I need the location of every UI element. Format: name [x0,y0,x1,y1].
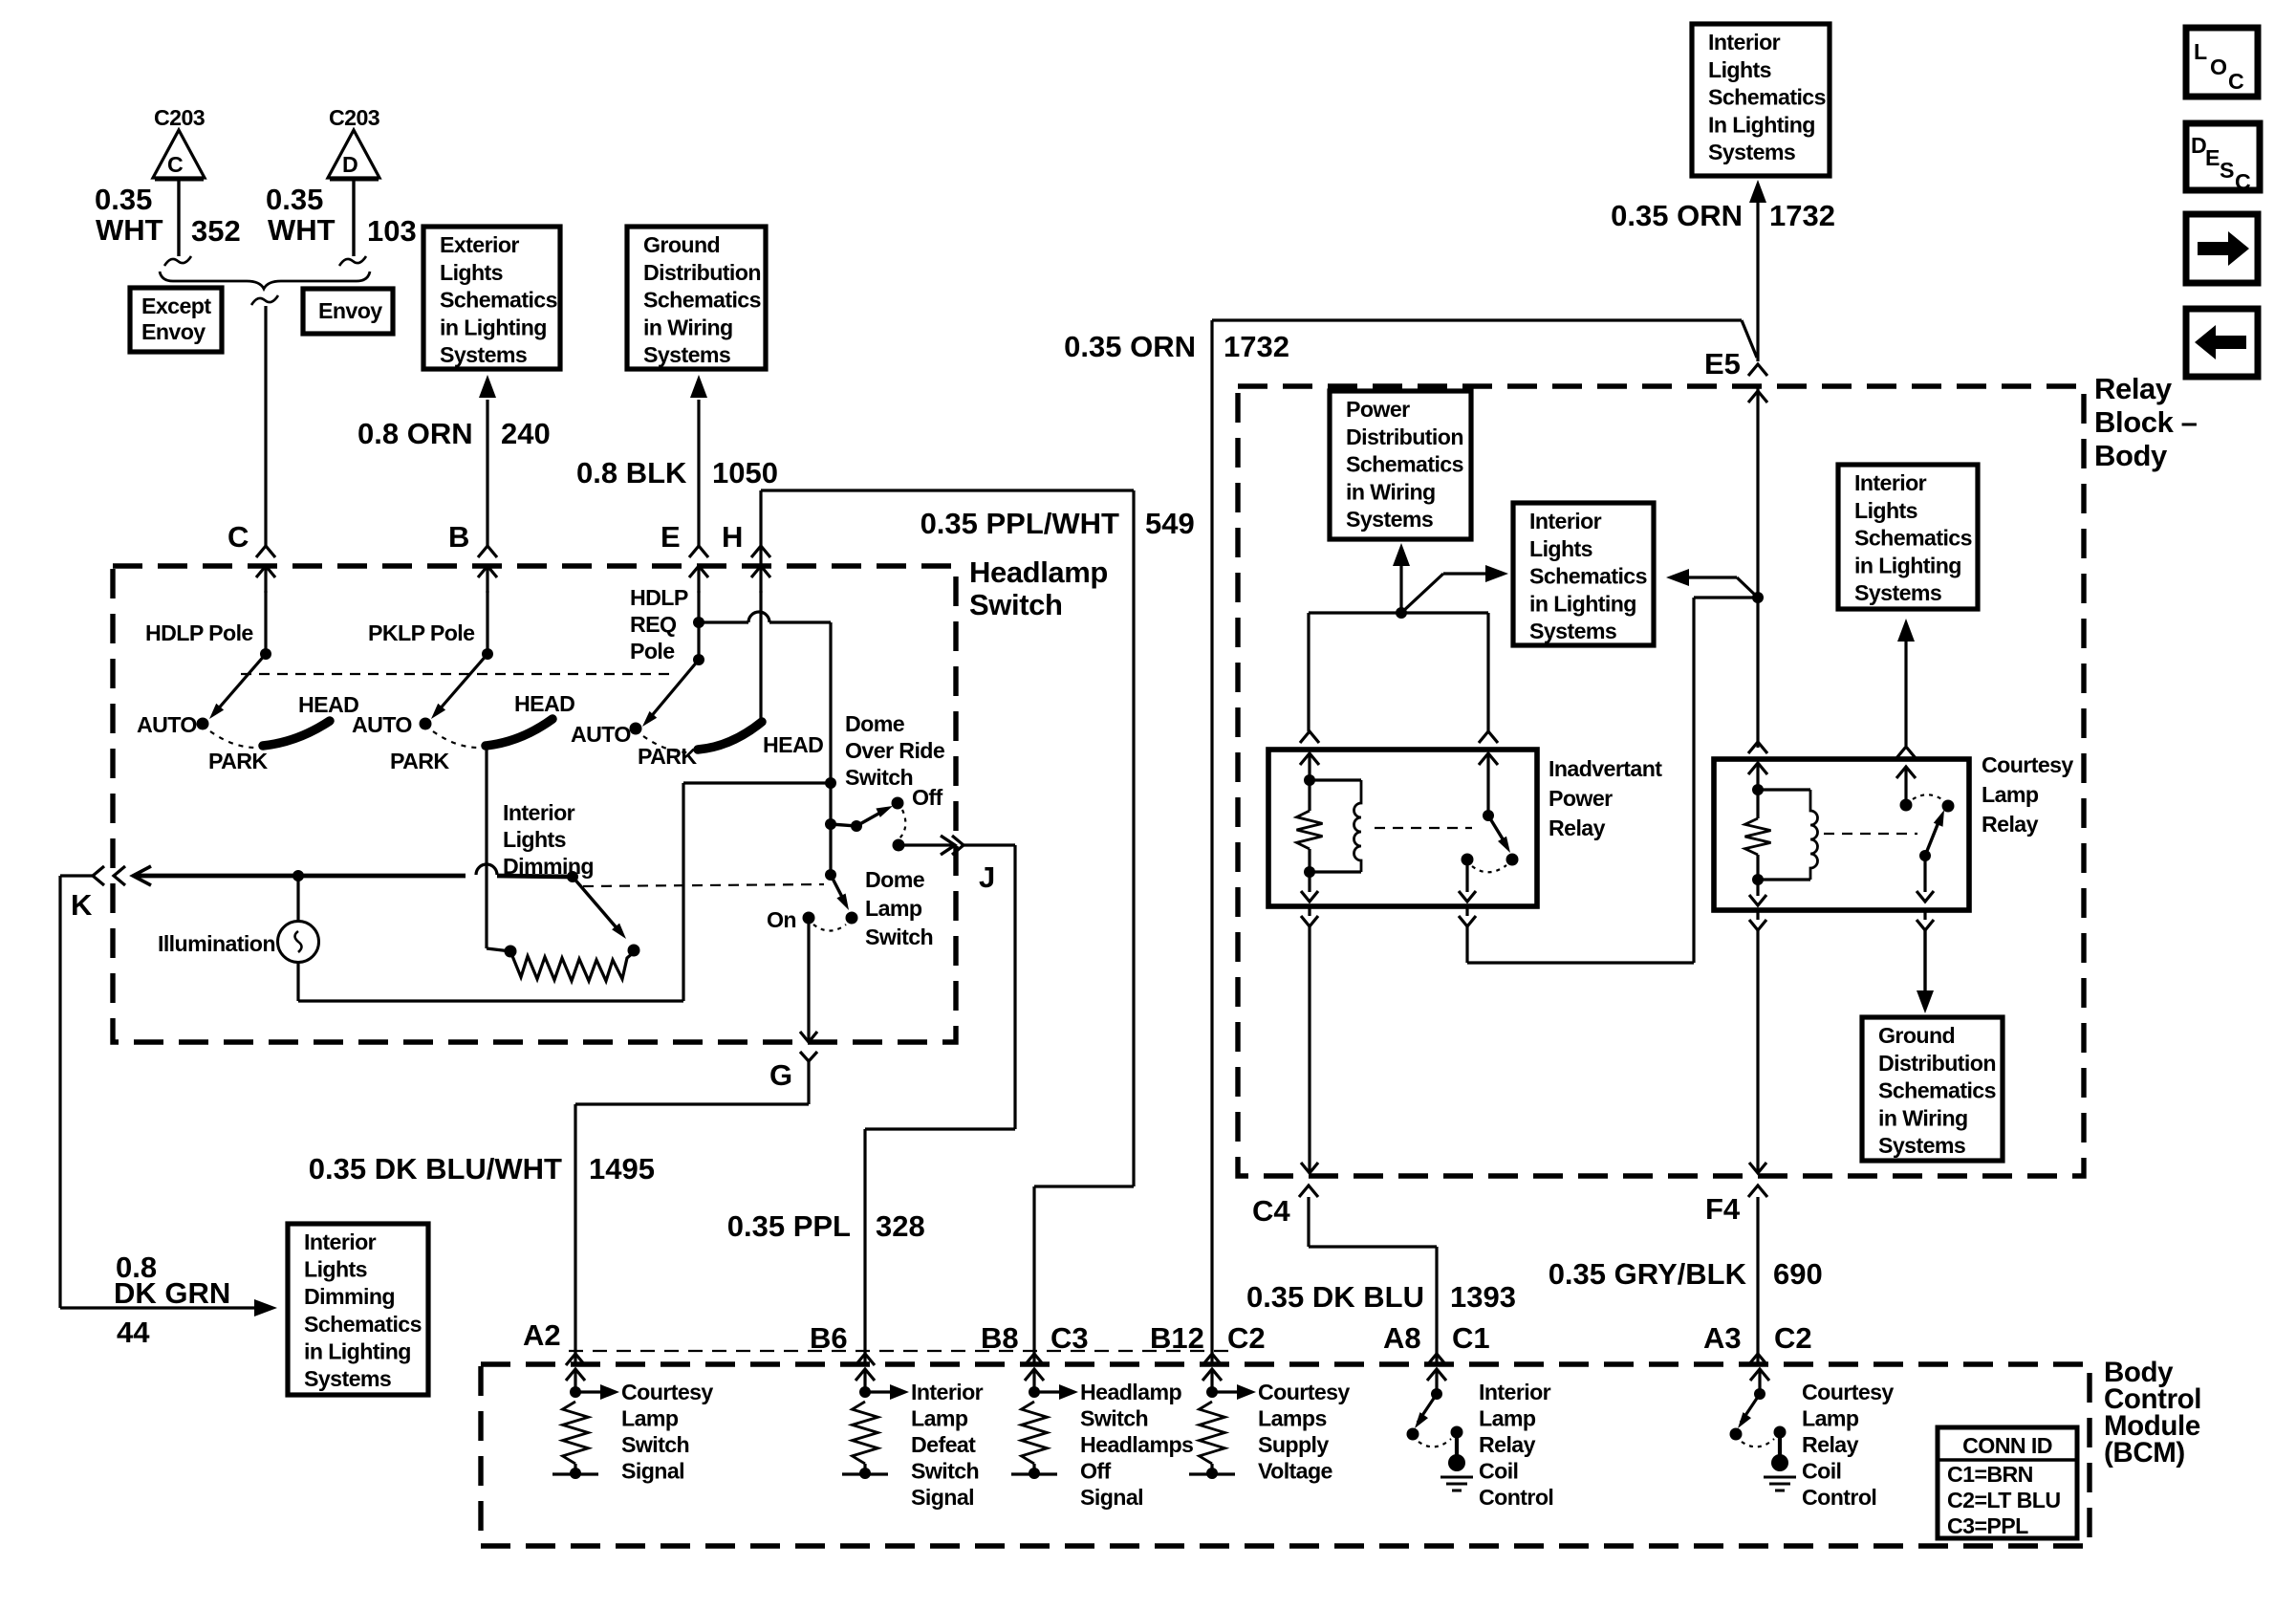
interior lamp relay coil control label [1479,1380,1553,1510]
terminal C4 of relay block [1252,1186,1318,1228]
connector C203 triangle D [328,105,380,179]
svg-text:Over Ride: Over Ride [845,738,945,763]
svg-text:Lights: Lights [1529,536,1592,561]
svg-text:Relay: Relay [2094,372,2173,405]
wire 1732 from relay block E5 to interior lights box [1212,180,1766,1364]
courtesy lamp switch signal resistor at A2 [552,1369,619,1479]
svg-text:HEAD: HEAD [298,692,358,717]
HDLP REQ pole HEAD contact arc [698,722,823,757]
svg-text:0.35 DK BLU/WHT: 0.35 DK BLU/WHT [309,1152,562,1186]
svg-text:Dome: Dome [845,711,905,736]
svg-text:Schematics: Schematics [1878,1078,1996,1103]
svg-text:L: L [2194,39,2207,64]
svg-text:Dimming: Dimming [304,1284,395,1309]
svg-text:HDLP Pole: HDLP Pole [145,620,253,645]
svg-text:F4: F4 [1705,1192,1741,1226]
svg-text:Relay: Relay [1479,1432,1536,1457]
svg-text:Block –: Block – [2094,405,2198,439]
svg-text:Coil: Coil [1479,1459,1518,1484]
svg-text:REQ: REQ [630,612,677,637]
label Headlamp Switch [969,555,1108,621]
svg-text:G: G [769,1058,792,1092]
svg-text:352: 352 [191,214,241,248]
svg-text:(BCM): (BCM) [2104,1437,2185,1469]
svg-text:1050: 1050 [712,456,778,490]
svg-text:549: 549 [1145,507,1195,540]
svg-text:Relay: Relay [1802,1432,1859,1457]
illumination lamp [158,870,319,1001]
courtesy lamp relay box [1714,759,1969,910]
HDLP pole switch blade [209,648,271,719]
svg-text:HEAD: HEAD [514,691,574,716]
svg-text:0.35: 0.35 [95,183,152,216]
svg-text:Courtesy: Courtesy [1802,1380,1894,1404]
svg-text:C4: C4 [1252,1194,1290,1228]
wire from HDLP REQ junction to dome override switch feed [699,612,831,875]
svg-text:Schematics: Schematics [1346,452,1463,477]
inadvertant relay coil terminal top [1300,731,1319,780]
wire 1393 from C4 to BCM A8 [1309,1197,1437,1364]
wire label 0.35 DK BLU 1393 [1246,1280,1516,1314]
svg-text:Lights: Lights [1708,57,1771,82]
svg-text:0.35 DK BLU: 0.35 DK BLU [1246,1280,1424,1314]
wire label 0.35 DK BLU/WHT 1495 [309,1152,655,1186]
svg-text:PKLP Pole: PKLP Pole [368,620,475,645]
svg-text:O: O [2210,54,2227,79]
terminal C of headlamp switch [227,520,275,593]
PKLP pole switch blade [431,648,493,719]
svg-text:Lamp: Lamp [865,896,922,921]
dome lamp dashed contact arc [813,925,846,931]
wire label 0.35 WHT 103 [266,183,417,248]
previous page arrow box [2186,309,2258,377]
svg-text:Switch: Switch [621,1432,689,1457]
mechanical linkage dashed line between switch poles [241,673,669,675]
label box Except Envoy [130,288,222,352]
svg-text:Schematics: Schematics [1854,526,1972,551]
inadvertant relay feed wires and junction [1309,543,1508,731]
svg-text:in Lighting: in Lighting [304,1338,411,1363]
svg-text:C2=LT BLU: C2=LT BLU [1947,1488,2061,1512]
svg-text:Supply: Supply [1258,1432,1329,1457]
svg-text:Lamp: Lamp [1479,1406,1536,1431]
arrow wire from E5 node to middle interior lights box [1666,569,1764,603]
svg-text:PARK: PARK [390,749,449,773]
wire 103 from connector D [339,181,366,266]
svg-text:1393: 1393 [1450,1280,1516,1314]
svg-text:Schematics: Schematics [643,288,761,313]
svg-text:Power: Power [1346,397,1410,422]
wire label 0.8 ORN 240 [357,417,551,450]
svg-text:Interior: Interior [911,1380,984,1404]
svg-text:Control: Control [1802,1485,1876,1510]
svg-text:Systems: Systems [304,1366,391,1391]
svg-text:AUTO: AUTO [352,712,412,737]
reference box Exterior Lights Schematics in Lighting Systems [423,227,560,369]
svg-text:Switch: Switch [865,925,933,949]
svg-text:C3=PPL: C3=PPL [1947,1513,2028,1538]
courtesy relay switch [1896,747,1955,861]
svg-text:Systems: Systems [1346,507,1433,532]
terminal F4 of relay block [1705,1186,1767,1226]
PKLP pole wire from terminal B [486,591,488,654]
svg-text:Lights: Lights [1854,498,1917,523]
LOC button box [2186,28,2258,97]
reference box Interior Lights Schematics In Lighting Systems top [1692,24,1830,176]
junction on HDLP REQ pole wire [693,617,704,628]
svg-text:Lamp: Lamp [911,1406,968,1431]
svg-text:K: K [71,888,93,922]
svg-text:0.35 GRY/BLK: 0.35 GRY/BLK [1549,1257,1747,1291]
svg-text:in Wiring: in Wiring [1878,1105,1968,1130]
svg-text:C1: C1 [1452,1321,1490,1355]
HDLP REQ pole PARK dashed arc and label [638,736,697,769]
wire from PKLP HEAD arc to dimmer rheostat [487,748,510,951]
terminal H of headlamp switch [722,520,770,593]
svg-text:0.8 ORN: 0.8 ORN [357,417,473,450]
svg-text:Systems: Systems [643,342,730,367]
headlamp switch headlamps off signal resistor at B8 label [1080,1380,1193,1510]
courtesy relay switch output to ground distribution box [1917,856,1934,1013]
terminal K of headlamp switch [71,866,125,922]
courtesy relay coil output to terminal F4 [1749,880,1766,1173]
svg-text:Ground: Ground [1878,1023,1955,1048]
wire 1050 from headlamp switch E to ground distribution box [690,375,707,546]
svg-text:Lamp: Lamp [621,1406,679,1431]
svg-text:Except: Except [141,294,211,318]
dome lamp ON contact [767,907,815,932]
connector C203 triangle C [153,105,206,179]
terminal A8 C1 of BCM [1383,1321,1490,1365]
courtesy relay coil and resistor [1745,784,1818,885]
svg-text:Off: Off [912,785,943,810]
svg-text:WHT: WHT [96,213,163,247]
svg-text:D: D [342,152,357,177]
svg-text:44: 44 [117,1316,150,1349]
wire 44 from terminal K to dimming schematics box [60,876,277,1316]
svg-text:Courtesy: Courtesy [1258,1380,1350,1404]
wire from courtesy relay switch to right interior lights box [1897,619,1915,746]
svg-text:PARK: PARK [638,744,697,769]
courtesy lamp relay coil control label [1802,1380,1894,1510]
svg-text:C2: C2 [1774,1321,1812,1355]
label box Envoy [303,289,393,334]
HDLP pole wire from terminal C [264,591,267,654]
svg-text:E: E [2205,145,2220,170]
courtesy lamps supply voltage resistor at B12 label [1258,1380,1350,1484]
HDLP pole PARK dashed arc and label [208,731,268,773]
svg-text:Switch: Switch [1080,1406,1148,1431]
svg-text:Body: Body [2094,439,2168,472]
svg-text:0.35 PPL: 0.35 PPL [727,1209,851,1243]
terminal A3 C2 of BCM [1703,1321,1812,1365]
inadvertant relay switch [1462,731,1519,872]
svg-text:E: E [661,520,681,554]
reference box Interior Lights Dimming Schematics in Lighting Systems [288,1224,428,1395]
wire label 0.8 DK GRN 44 [114,1251,230,1349]
svg-text:C203: C203 [154,105,206,130]
svg-text:Switch: Switch [845,765,913,790]
svg-text:Courtesy: Courtesy [621,1380,713,1404]
svg-text:0.35 ORN: 0.35 ORN [1064,330,1196,363]
svg-text:C2: C2 [1227,1321,1266,1355]
svg-text:328: 328 [876,1209,925,1243]
BCM connector thin dashed line [569,1350,1228,1352]
brace joining connector wires [160,272,370,289]
body control module dashed box [481,1364,2090,1546]
reference box Interior Lights Schematics in Lighting Systems middle [1513,503,1654,645]
HDLP REQ pole AUTO contact [571,722,642,747]
heavy wire from terminal K to dimmer blade [133,864,573,885]
wire label 0.35 ORN 1732 left [1064,330,1289,363]
terminal E5 of relay block [1704,347,1767,748]
svg-text:Interior: Interior [1708,30,1781,54]
PKLP pole AUTO contact [352,712,432,737]
svg-text:Coil: Coil [1802,1459,1841,1484]
terminal B8 C3 of BCM [981,1321,1089,1365]
svg-text:Switch: Switch [911,1459,979,1484]
inadvertant relay coil and resistor [1297,774,1362,878]
svg-text:Switch: Switch [969,588,1063,621]
inadvertant power relay box [1268,750,1537,906]
HDLP REQ pole switch blade [642,654,704,727]
svg-text:On: On [767,907,796,932]
svg-text:C: C [227,520,249,554]
svg-text:Ground: Ground [643,232,720,257]
svg-text:1495: 1495 [589,1152,655,1186]
svg-text:H: H [722,520,743,554]
interior lamp defeat switch signal resistor at B6 label [911,1380,984,1510]
svg-text:A2: A2 [523,1318,561,1352]
svg-text:Headlamp: Headlamp [969,555,1108,589]
svg-text:Systems: Systems [1878,1133,1965,1158]
svg-text:Inadvertant: Inadvertant [1549,756,1662,781]
courtesy lamp relay coil control driver switch [1730,1369,1789,1471]
svg-text:In Lighting: In Lighting [1708,112,1815,137]
dome lamp switch blade [825,869,849,910]
svg-text:Distribution: Distribution [643,260,761,285]
PKLP pole PARK dashed arc and label [390,731,479,773]
CONN ID legend table [1938,1427,2077,1538]
relay block body dashed box [1238,386,2084,1176]
svg-text:690: 690 [1773,1257,1823,1291]
courtesy lamp relay coil control ground symbol [1764,1477,1796,1490]
inadvertant relay linkage dashed line [1375,827,1472,829]
svg-text:Headlamp: Headlamp [1080,1380,1181,1404]
wire from dome override output to terminal J [899,836,955,855]
svg-text:D: D [2191,133,2206,158]
svg-text:103: 103 [367,214,417,248]
interior lamp relay coil control ground symbol [1440,1477,1473,1490]
terminal B6 of BCM [810,1321,875,1365]
svg-text:Interior: Interior [1479,1380,1551,1404]
wire 690 from F4 to BCM A3 [1756,1197,1759,1364]
svg-text:0.35 PPL/WHT: 0.35 PPL/WHT [921,507,1119,540]
svg-text:J: J [979,860,995,894]
svg-text:C: C [2235,169,2251,194]
svg-text:C: C [2228,69,2244,94]
svg-text:Headlamps: Headlamps [1080,1432,1193,1457]
reference box Power Distribution Schematics in Wiring Systems [1330,391,1471,539]
dome override switch blade [825,806,893,832]
svg-text:Voltage: Voltage [1258,1459,1333,1484]
svg-text:Relay: Relay [1982,812,2039,837]
wire 549 from terminal H to BCM B8 [761,490,1134,1364]
terminal B12 C2 of BCM [1150,1321,1266,1365]
svg-text:AUTO: AUTO [571,722,631,747]
wire label 0.35 GRY/BLK 690 [1549,1257,1823,1291]
svg-text:Systems: Systems [1708,140,1795,164]
svg-text:Exterior: Exterior [440,232,519,257]
interior lamp defeat switch signal resistor at B6 [842,1369,909,1479]
dome override OFF contact [892,785,943,810]
svg-text:HDLP: HDLP [630,585,688,610]
terminal A2 of BCM [523,1318,585,1365]
courtesy lamp switch signal resistor at A2 label [621,1380,713,1484]
rheostat resistive element [505,945,640,982]
courtesy relay coil terminal top [1748,742,1767,790]
courtesy relay linkage dashed line [1824,833,1917,835]
svg-text:Signal: Signal [911,1485,974,1510]
svg-text:CONN ID: CONN ID [1962,1433,2052,1458]
inadvertant relay switch output wire [1459,598,1758,963]
svg-text:Systems: Systems [1529,619,1616,643]
svg-text:Defeat: Defeat [911,1432,976,1457]
svg-text:in Wiring: in Wiring [1346,479,1436,504]
svg-text:Lamp: Lamp [1802,1406,1859,1431]
svg-text:0.35: 0.35 [266,183,323,216]
HDLP pole HEAD contact arc [263,692,358,746]
reference box Ground Distribution Schematics in Wiring Systems lower [1862,1017,2003,1161]
svg-text:B8: B8 [981,1321,1019,1355]
wire 1495 from terminal G to BCM A2 [575,1104,809,1364]
svg-text:C1=BRN: C1=BRN [1947,1462,2033,1487]
HDLP pole AUTO contact [137,712,209,737]
wire 352 from connector C [164,181,191,266]
wire from ON contact to terminal G [800,918,817,1042]
svg-text:Off: Off [1080,1459,1112,1484]
svg-text:Interior: Interior [304,1229,377,1254]
wire label 0.35 WHT 352 [95,183,241,248]
wire 328 from terminal J to BCM B6 [865,845,1015,1364]
svg-text:Power: Power [1549,786,1613,811]
svg-text:Schematics: Schematics [1529,564,1647,589]
svg-text:C: C [167,152,184,177]
svg-text:AUTO: AUTO [137,712,197,737]
svg-text:Schematics: Schematics [440,288,557,313]
dimming linkage dashed line to dome lamp switch [583,884,824,886]
wire label 0.35 PPL/WHT 549 [921,507,1195,540]
svg-text:Schematics: Schematics [1708,85,1826,110]
PKLP pole HEAD contact arc [486,691,574,746]
svg-text:B12: B12 [1150,1321,1204,1355]
wire 240 from headlamp switch B to exterior lights box [479,375,496,546]
svg-text:Envoy: Envoy [318,298,382,323]
wire label 0.35 PPL 328 [727,1209,925,1243]
headlamp switch headlamps off signal resistor at B8 [1011,1369,1078,1479]
svg-text:in Wiring: in Wiring [643,315,733,339]
wire from terminal H to HDLP REQ HEAD contact [759,591,762,719]
svg-text:Courtesy: Courtesy [1982,752,2073,777]
svg-text:HEAD: HEAD [763,732,823,757]
reference box Ground Distribution Schematics in Wiring Systems [627,227,766,369]
svg-text:240: 240 [501,417,551,450]
reference box Interior Lights Schematics in Lighting Systems right [1838,465,1978,609]
svg-text:Distribution: Distribution [1346,424,1463,449]
svg-text:Relay: Relay [1549,816,1606,840]
svg-text:Interior: Interior [1529,509,1602,533]
junction of dome override feed and illumination branch [825,777,836,789]
svg-text:Distribution: Distribution [1878,1051,1996,1076]
svg-text:in Lighting: in Lighting [440,315,547,339]
courtesy lamps supply voltage resistor at B12 [1189,1369,1256,1479]
svg-text:Interior: Interior [1854,470,1927,495]
svg-text:S: S [2220,158,2234,183]
svg-text:Lights: Lights [304,1257,367,1282]
svg-text:Systems: Systems [440,342,527,367]
wire label 0.35 ORN 1732 top [1611,199,1835,232]
svg-text:A3: A3 [1703,1321,1742,1355]
svg-text:DK GRN: DK GRN [114,1276,230,1310]
svg-text:in Lighting: in Lighting [1529,591,1636,616]
dome override dashed contact arc [899,810,905,838]
svg-text:0.8 BLK: 0.8 BLK [576,456,687,490]
svg-text:1732: 1732 [1224,330,1289,363]
svg-text:Lights: Lights [440,260,503,285]
svg-text:E5: E5 [1704,347,1741,381]
svg-text:Control: Control [1479,1485,1553,1510]
terminal J of headlamp switch [952,836,995,894]
terminal E of headlamp switch [661,520,708,593]
HDLP REQ pole wire from terminal E [697,591,700,660]
svg-text:PARK: PARK [208,749,268,773]
svg-text:C3: C3 [1051,1321,1089,1355]
svg-text:Signal: Signal [1080,1485,1143,1510]
svg-text:C203: C203 [329,105,380,130]
svg-text:Lamps: Lamps [1258,1406,1327,1431]
interior lamp relay coil control driver switch [1407,1369,1466,1471]
svg-text:B6: B6 [810,1321,848,1355]
DESC button box [2186,123,2260,194]
svg-text:Lights: Lights [503,827,566,852]
dome override output contact [893,839,905,852]
dome lamp switch contact [846,912,858,925]
svg-text:Signal: Signal [621,1459,684,1484]
svg-text:in Lighting: in Lighting [1854,553,1961,577]
wire from brace to headlamp switch terminal C [251,295,278,546]
svg-text:Pole: Pole [630,639,675,664]
svg-text:B: B [448,520,469,554]
inadvertant relay coil output to terminal C4 [1301,872,1318,1173]
svg-text:WHT: WHT [268,213,336,247]
svg-text:Systems: Systems [1854,580,1941,605]
terminal B of headlamp switch [448,520,497,593]
next page arrow box [2186,214,2258,283]
svg-text:Illumination: Illumination [158,931,275,956]
svg-text:Interior: Interior [503,800,575,825]
svg-text:Schematics: Schematics [304,1312,422,1337]
interior lights dimming blade [567,871,626,939]
svg-text:Lamp: Lamp [1982,782,2039,807]
svg-text:0.35 ORN: 0.35 ORN [1611,199,1743,232]
wire from dome override junction to illumination lamp branch [298,783,831,1001]
svg-text:1732: 1732 [1769,199,1835,232]
headlamp switch assembly dashed box [113,566,956,1042]
svg-text:Envoy: Envoy [141,319,206,344]
svg-text:A8: A8 [1383,1321,1421,1355]
terminal G of headlamp switch [769,1052,817,1104]
wire label 0.8 BLK 1050 [576,456,778,490]
